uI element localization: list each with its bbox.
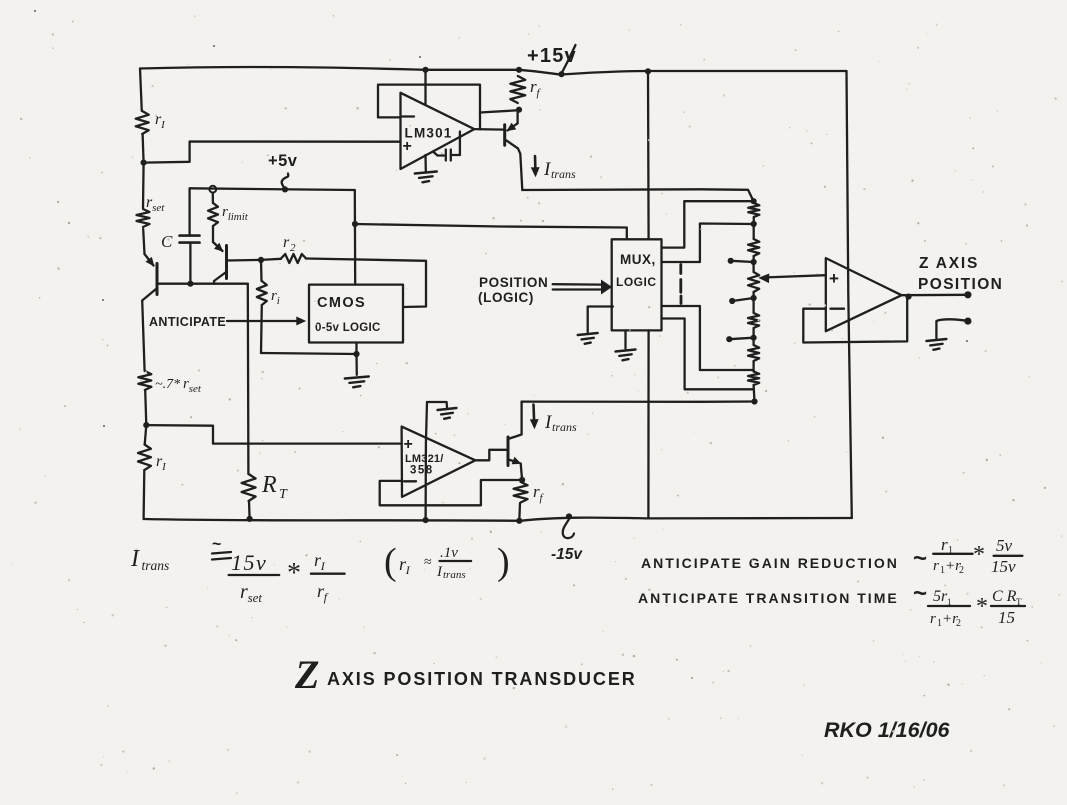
svg-text:r: r	[283, 234, 290, 251]
svg-text:i: i	[277, 295, 280, 307]
svg-text:trans: trans	[552, 420, 577, 434]
svg-text:POSITION: POSITION	[918, 276, 1003, 293]
svg-text:I: I	[436, 564, 443, 580]
svg-text:RKO 1/16/06: RKO 1/16/06	[824, 718, 951, 742]
svg-text:r: r	[930, 611, 936, 627]
svg-text:15: 15	[998, 608, 1015, 627]
svg-text:r: r	[933, 558, 939, 574]
svg-text:≈: ≈	[424, 555, 432, 570]
svg-text:LOGIC: LOGIC	[616, 275, 657, 289]
svg-text:~.7*: ~.7*	[155, 377, 180, 392]
svg-text:ANTICIPATE GAIN REDUCTION: ANTICIPATE GAIN REDUCTION	[641, 555, 899, 571]
svg-text:5v: 5v	[996, 536, 1013, 555]
svg-text:R: R	[261, 472, 277, 498]
svg-text:15v: 15v	[231, 550, 267, 575]
svg-text:r: r	[941, 535, 948, 554]
svg-text:CMOS: CMOS	[317, 295, 366, 311]
svg-text:*: *	[976, 594, 988, 620]
svg-text:MUX,: MUX,	[620, 252, 656, 267]
svg-text:*: *	[287, 558, 301, 589]
svg-text:trans: trans	[443, 569, 466, 581]
svg-text:+: +	[403, 138, 412, 155]
svg-text:C R: C R	[992, 588, 1017, 605]
svg-text:.1v: .1v	[440, 545, 458, 561]
svg-text:POSITION: POSITION	[479, 275, 548, 290]
svg-text:Z AXIS: Z AXIS	[919, 255, 979, 272]
svg-text:trans: trans	[551, 167, 576, 181]
svg-text:LM321/: LM321/	[405, 453, 444, 465]
svg-text:+5v: +5v	[268, 152, 298, 170]
svg-text:AXIS POSITION TRANSDUCER: AXIS POSITION TRANSDUCER	[327, 669, 637, 689]
svg-text:+: +	[404, 436, 413, 453]
svg-text:limit: limit	[228, 211, 249, 223]
svg-text:-15v: -15v	[551, 546, 583, 563]
svg-text:(LOGIC): (LOGIC)	[478, 290, 534, 305]
svg-text:ANTICIPATE: ANTICIPATE	[149, 315, 226, 329]
svg-text:C: C	[161, 232, 173, 251]
svg-text:T: T	[279, 487, 288, 502]
svg-text:ANTICIPATE TRANSITION TIME: ANTICIPATE TRANSITION TIME	[638, 590, 899, 606]
svg-text:~: ~	[913, 545, 927, 572]
svg-text:Z: Z	[294, 652, 319, 697]
svg-text:5r: 5r	[933, 588, 948, 605]
svg-text:): )	[497, 541, 510, 583]
svg-text:~: ~	[212, 536, 221, 553]
svg-text:set: set	[189, 383, 202, 395]
svg-text:358: 358	[410, 465, 434, 477]
svg-text:I: I	[130, 546, 140, 572]
svg-text:set: set	[152, 202, 165, 214]
svg-text:set: set	[248, 590, 263, 605]
svg-text:(: (	[384, 541, 397, 583]
svg-text:0-5v LOGIC: 0-5v LOGIC	[315, 322, 381, 334]
svg-text:2: 2	[956, 618, 961, 629]
svg-text:2: 2	[290, 242, 296, 254]
svg-text:~: ~	[913, 580, 927, 607]
svg-text:2: 2	[959, 565, 964, 576]
svg-text:trans: trans	[142, 558, 170, 573]
svg-text:*: *	[973, 542, 985, 568]
svg-text:15v: 15v	[991, 557, 1016, 576]
svg-text:+: +	[829, 269, 839, 288]
